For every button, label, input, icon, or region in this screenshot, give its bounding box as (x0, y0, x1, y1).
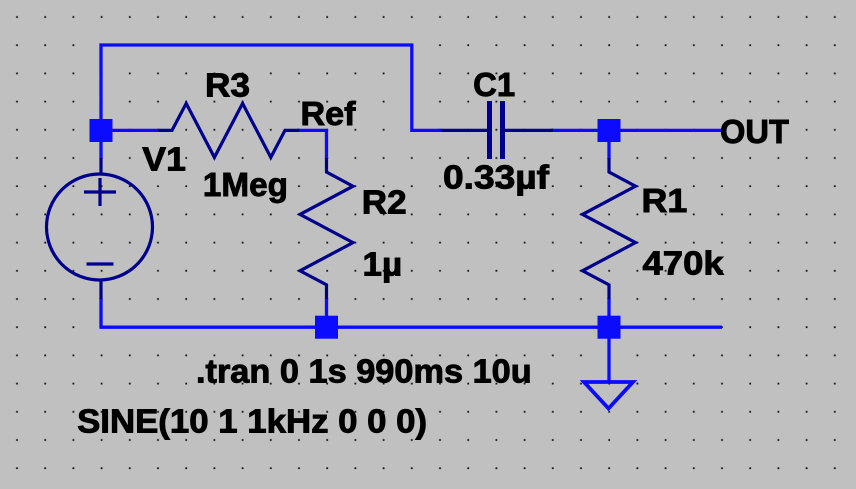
wire: V1 bottom lead to bottom rail (99, 298, 102, 328)
svg-text:.tran 0 1s 990ms 10u: .tran 0 1s 990ms 10u (196, 352, 532, 389)
wire: node A down to V1 top lead (99, 141, 102, 159)
wire: bottom rail (100, 326, 723, 329)
wire: node A to R3 left pin (110, 129, 159, 132)
wire: C1 right pin to OUT node (551, 129, 599, 132)
wire: OUT node down to R1 top pin (607, 141, 610, 159)
resistor R2 body (300, 158, 353, 299)
svg-text:R2: R2 (362, 184, 407, 221)
svg-text:SINE(10 1 1kHz 0 0 0): SINE(10 1 1kHz 0 0 0) (77, 402, 427, 439)
wire: R2 bottom pin to bottom rail junction (325, 298, 328, 327)
node junction square at R1/ground (598, 316, 621, 339)
wire: top loop from V1 node over to C1 left lead (101, 45, 442, 130)
svg-text:V1: V1 (142, 141, 186, 178)
wire: R1 bottom pin to ground junction (607, 298, 610, 327)
node junction square at OUT/C1/R1 (598, 119, 621, 142)
wire: ground junction down to ground symbol (607, 337, 610, 382)
voltage source V1 body (47, 158, 153, 299)
svg-text:0.33µf: 0.33µf (443, 159, 550, 196)
svg-text:C1: C1 (473, 66, 515, 103)
capacitor C1 body (441, 101, 553, 159)
resistor R1 body (583, 158, 636, 299)
wire: R3 right pin to Ref corner down to R2 top pin (298, 130, 327, 159)
wire: OUT node to OUT label (619, 129, 722, 132)
svg-text:OUT: OUT (720, 113, 789, 150)
node junction square at V1/R3 (90, 119, 113, 142)
svg-text:Ref: Ref (301, 95, 357, 132)
svg-text:1Meg: 1Meg (203, 166, 288, 203)
svg-text:1µ: 1µ (363, 246, 403, 283)
svg-text:R1: R1 (642, 182, 688, 219)
svg-text:R3: R3 (205, 66, 250, 103)
ground symbol (584, 382, 633, 409)
svg-text:470k: 470k (643, 245, 725, 282)
resistor R3 body (158, 103, 299, 157)
node junction square at R2/bottom rail (315, 316, 338, 339)
